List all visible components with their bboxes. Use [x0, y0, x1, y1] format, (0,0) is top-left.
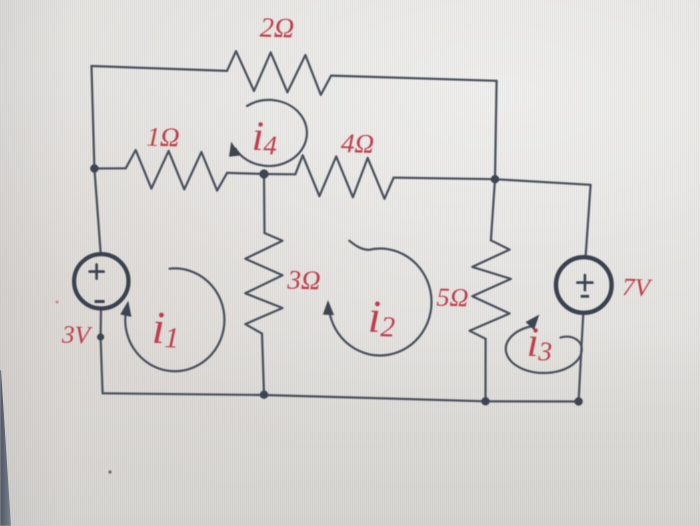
svg-text:i4: i4	[251, 114, 278, 161]
mesh current arc i4	[235, 100, 307, 166]
V2 minus sign	[581, 295, 589, 298]
wire R2 to top-right corner	[331, 76, 497, 81]
wire R5 to node K	[484, 339, 486, 402]
resistor R4 4ohm zigzag	[295, 155, 393, 199]
junction dot node K	[481, 397, 489, 405]
wire R4 to node E	[394, 178, 495, 180]
arrowhead i2	[324, 302, 334, 315]
speck red dot	[56, 301, 59, 304]
arrowhead i4	[230, 143, 240, 156]
wire R3 to node J	[262, 334, 264, 395]
resistor R1 1ohm zigzag	[126, 150, 227, 191]
svg-text:4Ω: 4Ω	[341, 128, 375, 159]
resistor R5 5ohm zigzag vertical	[470, 240, 511, 338]
svg-text:7V: 7V	[622, 274, 653, 302]
svg-text:1Ω: 1Ω	[146, 121, 180, 152]
arrowhead i1	[121, 302, 131, 316]
wire corner F down to source V2 top	[586, 185, 591, 258]
wire R1 to node D	[227, 173, 264, 174]
dark screen edge wedge bottom-left	[0, 370, 13, 526]
V2 plus sign	[577, 275, 592, 290]
mesh current arc i2	[329, 241, 432, 356]
V1 minus sign	[95, 300, 105, 303]
wire source V2 bottom to node L	[579, 313, 584, 402]
svg-text:5Ω: 5Ω	[436, 283, 469, 313]
wire right vertical top-right corner to node E	[495, 81, 497, 179]
wire node D down to resistor R3	[263, 174, 266, 233]
wire bottom rail I to J to K to L	[103, 393, 579, 401]
wire node C to resistor R1	[94, 167, 125, 169]
wire node E down to resistor R5	[491, 179, 495, 240]
svg-text:2Ω: 2Ω	[259, 12, 294, 44]
wire source V1 bottom through node H to corner I	[101, 308, 103, 393]
voltage source V2 7V circle	[556, 257, 612, 313]
resistor R3 3ohm zigzag vertical	[245, 233, 282, 334]
junction dot node D	[259, 169, 268, 178]
svg-text:i1: i1	[151, 302, 180, 355]
voltage source V1 3V circle	[74, 254, 128, 308]
svg-text:i2: i2	[367, 291, 396, 344]
speck dark dot	[108, 470, 111, 473]
junction dot node H at 3V label	[97, 333, 104, 340]
junction dot node C	[90, 164, 98, 172]
svg-text:i3: i3	[526, 320, 553, 367]
svg-text:3Ω: 3Ω	[286, 264, 321, 295]
mesh current arc i1	[125, 268, 224, 371]
junction dot node E	[491, 175, 499, 183]
V1 plus sign	[90, 265, 104, 279]
wire node D to resistor R4	[264, 173, 295, 176]
wire node E to far-right corner F	[495, 179, 591, 185]
wire node C down to source V1 top	[94, 169, 100, 256]
mesh current arc i3	[506, 327, 582, 373]
junction dot node L	[574, 397, 582, 405]
wire top-left corner to resistor R2	[92, 66, 228, 71]
wire left vertical top-left corner to node C	[92, 66, 95, 169]
arrowhead i3	[526, 316, 538, 330]
resistor R2 2ohm zigzag	[227, 51, 331, 95]
junction dot node J	[260, 391, 268, 399]
svg-text:3V: 3V	[61, 322, 93, 350]
